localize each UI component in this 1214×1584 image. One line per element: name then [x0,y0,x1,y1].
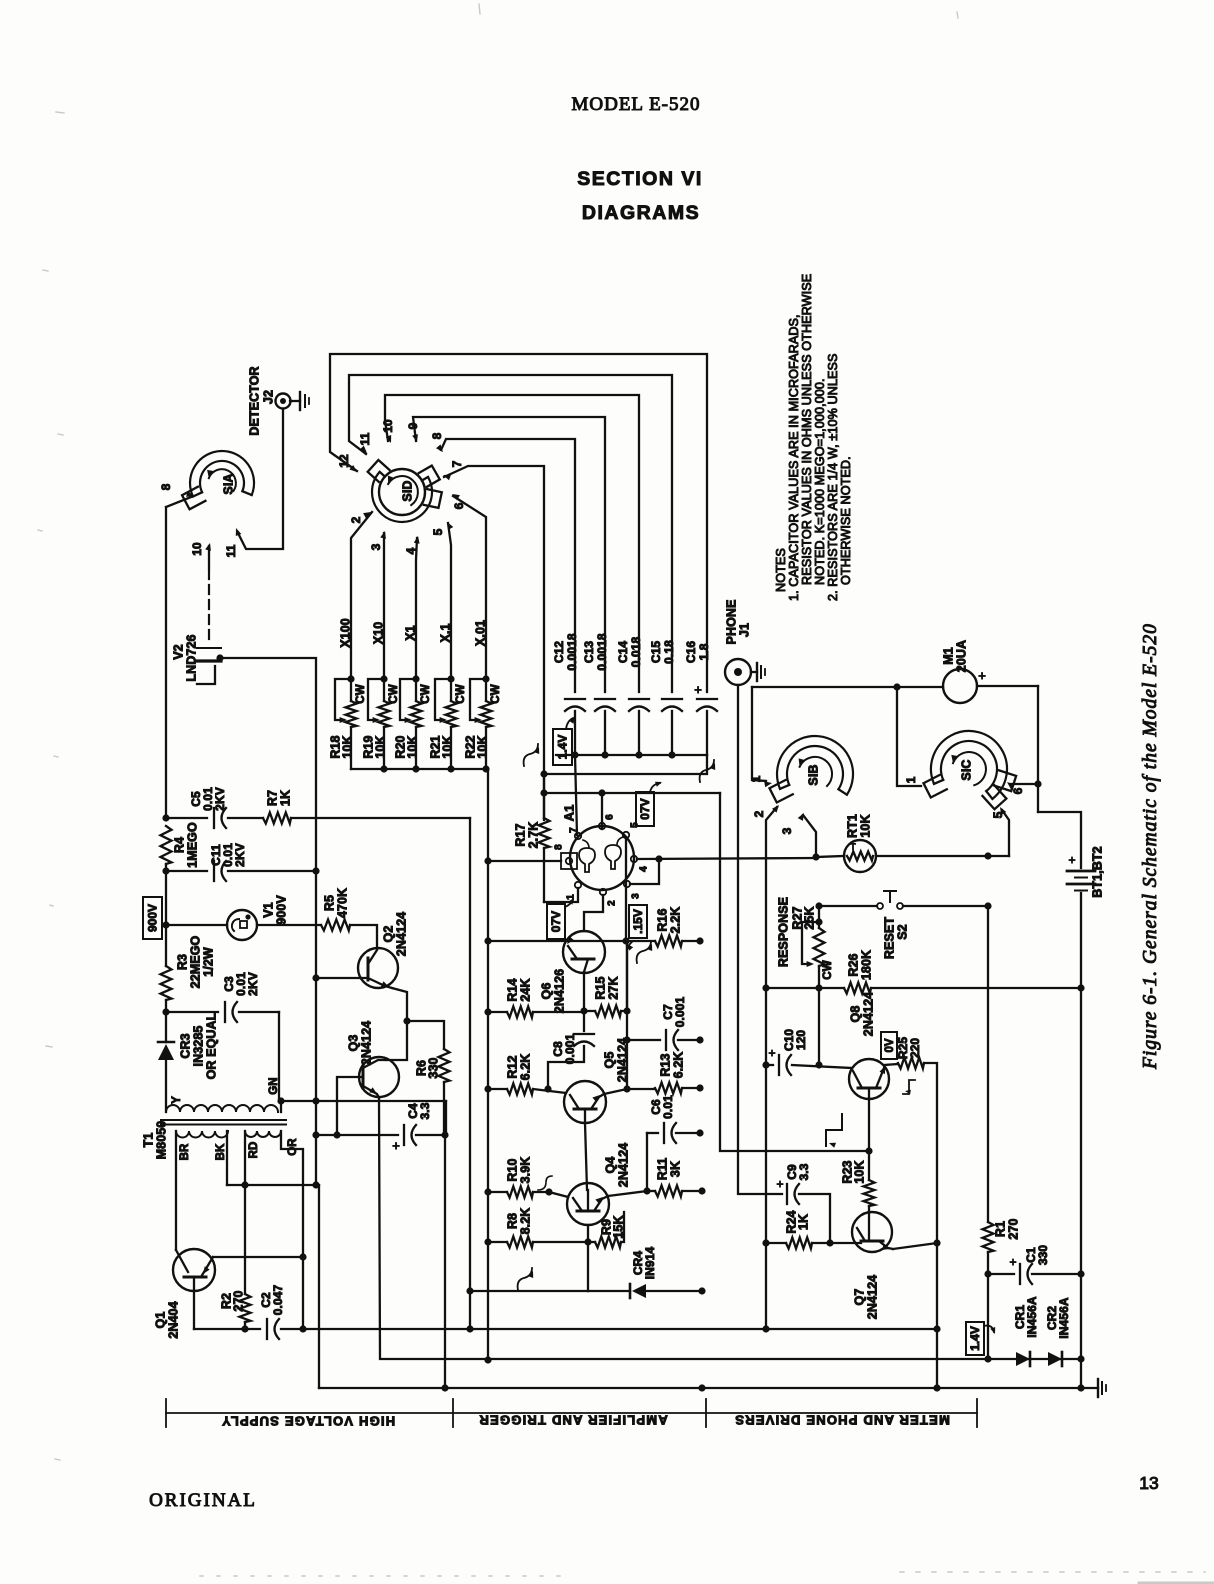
wire R7 rail down [469,818,471,1329]
wire common bus jog to SID7 rail [544,755,707,774]
svg-text:07V: 07V [638,798,652,819]
wire rail to battery [1038,812,1081,868]
rotary switch S1D [372,472,432,522]
resistor R26 180K [844,983,871,994]
svg-text:2: 2 [607,900,618,906]
resistor R6 330 [439,1049,450,1082]
svg-text:AMPLIFIER AND TRIGGER: AMPLIFIER AND TRIGGER [478,1413,667,1428]
svg-text:7: 7 [569,827,580,833]
node Q7 rail bus1 [933,1325,940,1332]
svg-text:Q5: Q5 [602,1052,616,1069]
node SIB2 rail C10 [762,1061,769,1068]
svg-text:R14: R14 [505,978,519,1001]
svg-text:R1: R1 [993,1221,1007,1237]
svg-text:2N4126: 2N4126 [552,969,566,1013]
svg-text:BR: BR [179,1143,191,1160]
svg-text:3.3: 3.3 [797,1163,811,1180]
svg-text:2. RESISTORS ARE 1/4 W, ±1: 2. RESISTORS ARE 1/4 W, ±10% UNLESS [826,354,840,601]
svg-text:RESISTOR VALUES IN OHMS UNLESS: RESISTOR VALUES IN OHMS UNLESS OTHERWISE [800,274,814,585]
svg-text:Q8: Q8 [848,1006,862,1023]
wire Q7 emitter to rail [893,1243,937,1249]
node R13 right rail [696,1084,703,1091]
curl annotation at cap bus right [700,760,714,782]
svg-text:R3: R3 [175,954,189,970]
voltage label 07V boxed below A1 [547,904,565,939]
wire C1 line [988,1273,1014,1275]
node SIB2 rail R26 [762,984,769,991]
svg-text:900V: 900V [274,895,288,925]
wire SIC 6 to meter plus rail [1010,783,1038,785]
svg-text:SIA: SIA [221,473,235,494]
svg-text:10K: 10K [373,735,387,758]
node SIC6 rail [1034,780,1041,787]
svg-text:OR: OR [287,1138,299,1156]
resistor R13 6.2K [627,1088,655,1090]
wire R27 down to C10 line [818,988,820,1065]
svg-text:Q7: Q7 [852,1289,866,1306]
svg-text:M1: M1 [941,647,955,665]
wire R2 top bus [227,1184,319,1186]
node CR4 line right rail [698,1287,705,1294]
tube V2 LND726 [208,570,210,642]
ground at J1 [756,663,758,681]
svg-text:SIB: SIB [806,764,820,785]
svg-text:10K: 10K [405,735,419,758]
capacitor C15 0.18 [662,698,682,700]
svg-text:R26: R26 [846,953,860,976]
wire amplifier left rail (R22 column) [487,769,489,861]
svg-text:2.7K: 2.7K [526,822,540,849]
wire rail 900V to R3 [165,925,167,966]
node C4 line left rail [312,1131,319,1138]
wire A1 pin6 up [601,795,603,829]
node OR rail bus1 [299,1325,306,1332]
svg-text:3: 3 [631,893,642,899]
svg-text:900V: 900V [146,904,160,932]
wire Q3 emitter to bottom bus 2 [379,1098,1081,1359]
svg-text:Q3: Q3 [346,1035,360,1052]
transformer T1 core [161,1119,286,1121]
resistor R17 2.7K [543,774,545,818]
svg-text:1.4V: 1.4V [556,735,570,760]
wire SID 5 down to R21 [448,523,451,679]
svg-text:X.1: X.1 [438,623,452,642]
svg-text:20UA: 20UA [954,640,968,672]
resistor R10 3.9K [488,1191,507,1193]
svg-text:0.0018: 0.0018 [595,633,609,671]
wire RD to R2 column [244,1131,246,1185]
svg-text:Q6: Q6 [539,983,553,1000]
node R11 left [643,1187,650,1194]
voltage label 0V boxed [881,1032,897,1059]
svg-text:24K: 24K [518,978,532,1001]
svg-text:J1: J1 [737,623,751,637]
wire R1 rail to CR line [987,1274,989,1359]
node RD R2 bus [241,1181,248,1188]
svg-text:C15: C15 [649,641,663,664]
node C4 R6 GN rail [441,1131,448,1138]
svg-text:R7: R7 [265,790,279,806]
wire C5 R7 line [166,817,207,819]
svg-text:CR3: CR3 [178,1033,192,1058]
svg-text:Y: Y [171,1096,183,1104]
wire SIA contact 10 arrow to V2 [208,546,210,568]
svg-text:T: T [850,842,856,852]
svg-text:V2: V2 [171,644,185,660]
wire R17 rail junction [540,770,547,777]
lamp V1 900V [227,910,257,940]
node Q5 collector R13 [623,1085,630,1092]
capacitor C3 0.01 2KV [224,1002,226,1022]
svg-text:8.2K: 8.2K [518,1208,532,1235]
resistor R9 15K [588,1241,595,1243]
node Q3 base C4 line [333,1131,340,1138]
svg-text:2N4124: 2N4124 [861,992,875,1036]
svg-text:2: 2 [349,516,363,523]
svg-text:C16: C16 [684,641,698,664]
svg-text:R10: R10 [505,1158,519,1181]
svg-text:15K: 15K [611,1215,625,1238]
node C7 right rail [696,1036,703,1043]
node pin4 line [655,855,662,862]
svg-text:10K: 10K [475,735,489,758]
switch S2 RESET [877,903,883,909]
svg-text:HIGH VOLTAGE SUPPLY: HIGH VOLTAGE SUPPLY [221,1414,395,1429]
wire R26 line [766,987,844,989]
svg-text:Q4: Q4 [603,1157,617,1174]
node Q7 emitter rail [933,1239,940,1246]
A1 pin8 square [561,853,577,869]
wire GN bus corner down [445,1101,447,1135]
step waveform annotation at Q8 base [826,1114,842,1146]
svg-text:1: 1 [566,894,577,900]
resistor R15 27K [584,1010,595,1012]
svg-text:270: 270 [1006,1218,1020,1239]
wire C9 to R24 node [799,1194,830,1243]
svg-text:0.0018: 0.0018 [565,633,579,671]
capacitor C12 0.0018 [565,698,585,700]
svg-text:4: 4 [639,866,650,872]
wire SID 9 to bus and C13 column [413,417,605,692]
svg-text:270: 270 [231,1290,245,1311]
wire SIA8 left rail [165,507,167,818]
wire SIC 5 down to RT1 line [1002,810,1009,856]
ground at bus 3 right end [1097,1379,1099,1397]
svg-text:R8: R8 [505,1213,519,1229]
wire SID 11 to bus and C15 column [349,375,672,692]
node rail R8 [484,1238,491,1245]
svg-text:0.18: 0.18 [662,640,676,664]
svg-text:C13: C13 [582,641,596,664]
svg-text:8: 8 [430,432,444,439]
resistor R16 2.2K [626,940,655,942]
svg-text:Q1: Q1 [153,1312,167,1329]
resistor R23 10K [868,1151,870,1180]
node battery rail bus2 [1077,1355,1084,1362]
node R27 C10 line [815,1061,822,1068]
svg-text:R13: R13 [658,1053,672,1076]
node RESET right rail [984,902,991,909]
node Q2 base rail [312,974,319,981]
wire meter to SIC6 rail [977,685,1038,687]
wire BR to Q1 base [175,1131,177,1250]
svg-text:T1: T1 [141,1133,155,1148]
voltage label .15V boxed [629,905,647,938]
wire bottom bus 1 [194,1328,260,1330]
transistor Q2 2N4124 [358,948,398,988]
svg-text:+: + [776,1177,783,1191]
svg-text:CW: CW [455,684,467,703]
svg-text:11: 11 [224,544,238,557]
svg-text:6: 6 [1011,787,1025,794]
wire RT1 line [876,855,1009,857]
svg-text:1: 1 [749,775,763,782]
wire V2 plate to GN rail [220,658,316,1185]
node R3 bottom C3 [162,1008,169,1015]
capacitor C4 3.3 [403,1125,405,1145]
svg-text:S2: S2 [895,924,909,940]
svg-text:X.01: X.01 [473,620,487,646]
rotary switch S1C [931,731,1007,799]
svg-text:0.01: 0.01 [661,1095,675,1119]
node R4 top [162,814,169,821]
svg-text:2N4124: 2N4124 [865,1275,879,1319]
node SIB2 rail bus1 [762,1325,769,1332]
svg-text:8: 8 [159,483,173,490]
svg-text:22MEGO: 22MEGO [188,935,202,988]
svg-text:X1: X1 [403,625,417,641]
wire Q1 emitter to bottom bus 1 [193,1291,195,1329]
node 900V [162,921,169,928]
svg-text:X100: X100 [338,618,352,648]
node rail R12 [484,1085,491,1092]
node Q8 base emitter-line [865,1147,872,1154]
node R11 right rail [698,1187,705,1194]
svg-text:OTHERWISE NOTED.: OTHERWISE NOTED. [839,456,853,585]
wire GN rail down to bus 3 [444,1135,446,1388]
svg-text:DIAGRAMS: DIAGRAMS [582,202,700,224]
svg-text:+: + [1009,1255,1016,1269]
svg-text:BT1,BT2: BT1,BT2 [1090,846,1104,897]
potentiometer R27 25K RESPONSE [815,918,822,925]
svg-text:R4: R4 [172,837,186,853]
svg-text:2KV: 2KV [213,787,227,811]
svg-text:+: + [768,1046,775,1060]
wire A1 pin4 to RT1 line [637,858,816,859]
node meter line SIC1 rail [893,683,900,690]
svg-text:1. CAPACITOR VALUES ARE IN: 1. CAPACITOR VALUES ARE IN MICROFARADS, [787,314,801,601]
svg-text:2N4124: 2N4124 [616,1143,630,1187]
section bracket line [166,1412,977,1414]
wire SID 7 to common rail [444,466,544,820]
wire C10 line [766,1064,773,1066]
svg-text:120: 120 [794,1030,808,1051]
node R10 right [545,1188,552,1195]
resistor R4 1MEGO [161,826,172,864]
connector J1 PHONE [725,659,751,685]
svg-text:+: + [1068,853,1075,867]
wire C6 left down to R11 line [646,1133,648,1191]
svg-text:180K: 180K [859,950,873,980]
node Q2 emitter R6 line [403,1017,410,1024]
svg-text:+: + [392,1138,400,1153]
svg-text:2KV: 2KV [233,843,247,867]
node CR4 line left rail [466,1287,473,1294]
svg-text:1/2W: 1/2W [201,947,215,977]
connector J2 DETECTOR [276,394,291,409]
resistor R11 3K [647,1190,655,1192]
svg-text:IN456A: IN456A [1057,1297,1071,1339]
A1 internal gates [579,848,595,872]
svg-text:25K: 25K [802,906,816,929]
wire Q5 collector to R13 node [604,1089,627,1094]
wire pin5 rail down [626,941,628,1089]
wire V1 to R5 [257,924,321,926]
capacitor C16 1.8 [697,698,717,700]
node RT1 line SIB3 [812,853,819,860]
svg-text:1MEGO: 1MEGO [185,822,199,868]
capacitor C2 0.047 series in bus [266,1319,268,1339]
rotary switch S1A [190,451,254,496]
svg-text:3: 3 [780,827,794,834]
potentiometer R18 10K (X100) [347,675,354,682]
node R7 rail bus1 [466,1325,473,1332]
svg-text:3.9K: 3.9K [518,1157,532,1184]
node A1 pin6 top [598,789,605,796]
svg-text:6: 6 [605,814,616,820]
transformer T1 M8050 secondary winding Y-GN [166,1105,278,1112]
meter M1 20UA [943,669,977,703]
svg-text:Figure 6-1. General Schemati: Figure 6-1. General Schematic of the Mod… [1140,623,1161,1070]
node bus3 dots [698,1384,705,1391]
svg-text:2N404: 2N404 [166,1301,180,1338]
node R1 rail bus2 [984,1355,991,1362]
svg-text:X10: X10 [371,622,385,645]
svg-text:R12: R12 [505,1055,519,1078]
wire A1 pin8 to amplifier rail [488,860,561,862]
svg-text:0V: 0V [884,1038,896,1052]
wire A1 pins 3-4 strap [630,859,659,884]
transistor Q8 2N4124 [849,1059,889,1099]
svg-text:IN456A: IN456A [1025,1296,1039,1338]
svg-text:C14: C14 [616,641,630,664]
svg-text:RESET: RESET [882,917,896,959]
svg-text:3.3: 3.3 [418,1102,432,1119]
resistor R12 6.2K [488,1088,507,1090]
node RT1 line rail x988 [984,852,991,859]
node C9 R24 Q7 base [826,1239,833,1246]
node R24 left rail [762,1239,769,1246]
capacitor C13 0.0018 [595,698,615,700]
diode CR4 1N914 [629,1284,632,1298]
thermistor RT1 10K [844,840,876,872]
node Q4 emitter R8 R9 [584,1238,591,1245]
svg-text:+: + [694,682,702,697]
node GN rail bus3 [441,1384,448,1391]
curl annotation at R10 [538,1176,552,1190]
svg-text:6.2K: 6.2K [518,1054,532,1081]
wire right rail down to Q8 emitter line [720,793,869,1151]
node R27 R26 line [815,984,822,991]
svg-text:10: 10 [190,542,204,556]
wire to R6 [407,1021,444,1049]
diode CR3 1N3285 [165,1012,167,1042]
svg-text:1K: 1K [796,1214,810,1230]
svg-text:10: 10 [381,419,395,433]
svg-text:2N4124: 2N4124 [359,1021,373,1065]
svg-text:3K: 3K [668,1161,682,1177]
node rail R10 [484,1188,491,1195]
svg-text:11: 11 [358,432,372,445]
svg-text:1.8: 1.8 [697,643,711,660]
wire meter line left corner to SIB1 [752,687,766,781]
node R2 bus1 [241,1325,248,1332]
node C8 R12 junction [544,1085,551,1092]
wire R5 to Q2 collector [350,925,377,948]
node battery rail bus3 [1077,1384,1084,1391]
voltage label 1.4V boxed bottom [966,1322,984,1355]
transistor Q3 2N4124 [359,1057,399,1097]
node rail bus2 [484,1356,491,1363]
node GN bus crossing V2 rail [312,1097,319,1104]
wire J1 down to C9 [738,685,782,1194]
resistor R25 220 [884,1064,898,1065]
svg-text:CW: CW [355,684,367,703]
capacitor C7 0.001 [627,1039,660,1041]
svg-text:3: 3 [369,543,383,550]
waveform annotation near 1.4V [524,744,538,766]
node Q1 collector OR rail [299,1253,306,1260]
svg-text:.15V: .15V [631,909,645,934]
wire bottom bus 3 [319,1387,1098,1389]
wire C11 line [166,870,207,872]
wire SID 3 down to R19 [383,533,385,679]
waveform annotation right of .15V [637,941,651,963]
transistor Q6 2N4126 [563,931,605,973]
svg-text:330: 330 [426,1057,440,1078]
transistor Q7 2N4124 [852,1212,892,1252]
svg-text:27K: 27K [606,976,620,999]
A1 pins [575,833,581,839]
node rail Q6 base [484,937,491,944]
transistor Q5 2N4124 [564,1081,606,1123]
svg-text:+: + [978,668,986,683]
battery BT1 BT2 [1067,870,1095,873]
node C11 right on V2 rail [312,867,319,874]
capacitor C11 0.01 2KV [213,861,215,881]
node C1 left [984,1270,991,1277]
svg-text:6.2K: 6.2K [671,1052,685,1079]
resistor R2 270 [244,1185,246,1294]
wire J2 to SIA contact 11 [238,409,283,549]
wire A1 top line to right rail [544,792,720,794]
node pin8 rail [484,857,491,864]
svg-text:IN914: IN914 [643,1247,657,1280]
svg-text:10K: 10K [440,735,454,758]
resistor R1 270 [983,1222,994,1252]
svg-text:OR EQUAL: OR EQUAL [204,1012,218,1079]
svg-text:10K: 10K [340,735,354,758]
transistor Q4 2N4124 [567,1183,609,1225]
voltage label 1.4V boxed top [553,729,572,765]
svg-text:10K: 10K [852,1160,866,1183]
wire SID 6 down to R22 [453,496,486,679]
svg-text:13: 13 [1139,1473,1158,1493]
svg-text:2N4124: 2N4124 [394,912,408,956]
wire battery rail down [1080,893,1082,1388]
wire C3 line [166,1011,218,1013]
wire capacitor common bus 1.4V node [556,754,707,756]
